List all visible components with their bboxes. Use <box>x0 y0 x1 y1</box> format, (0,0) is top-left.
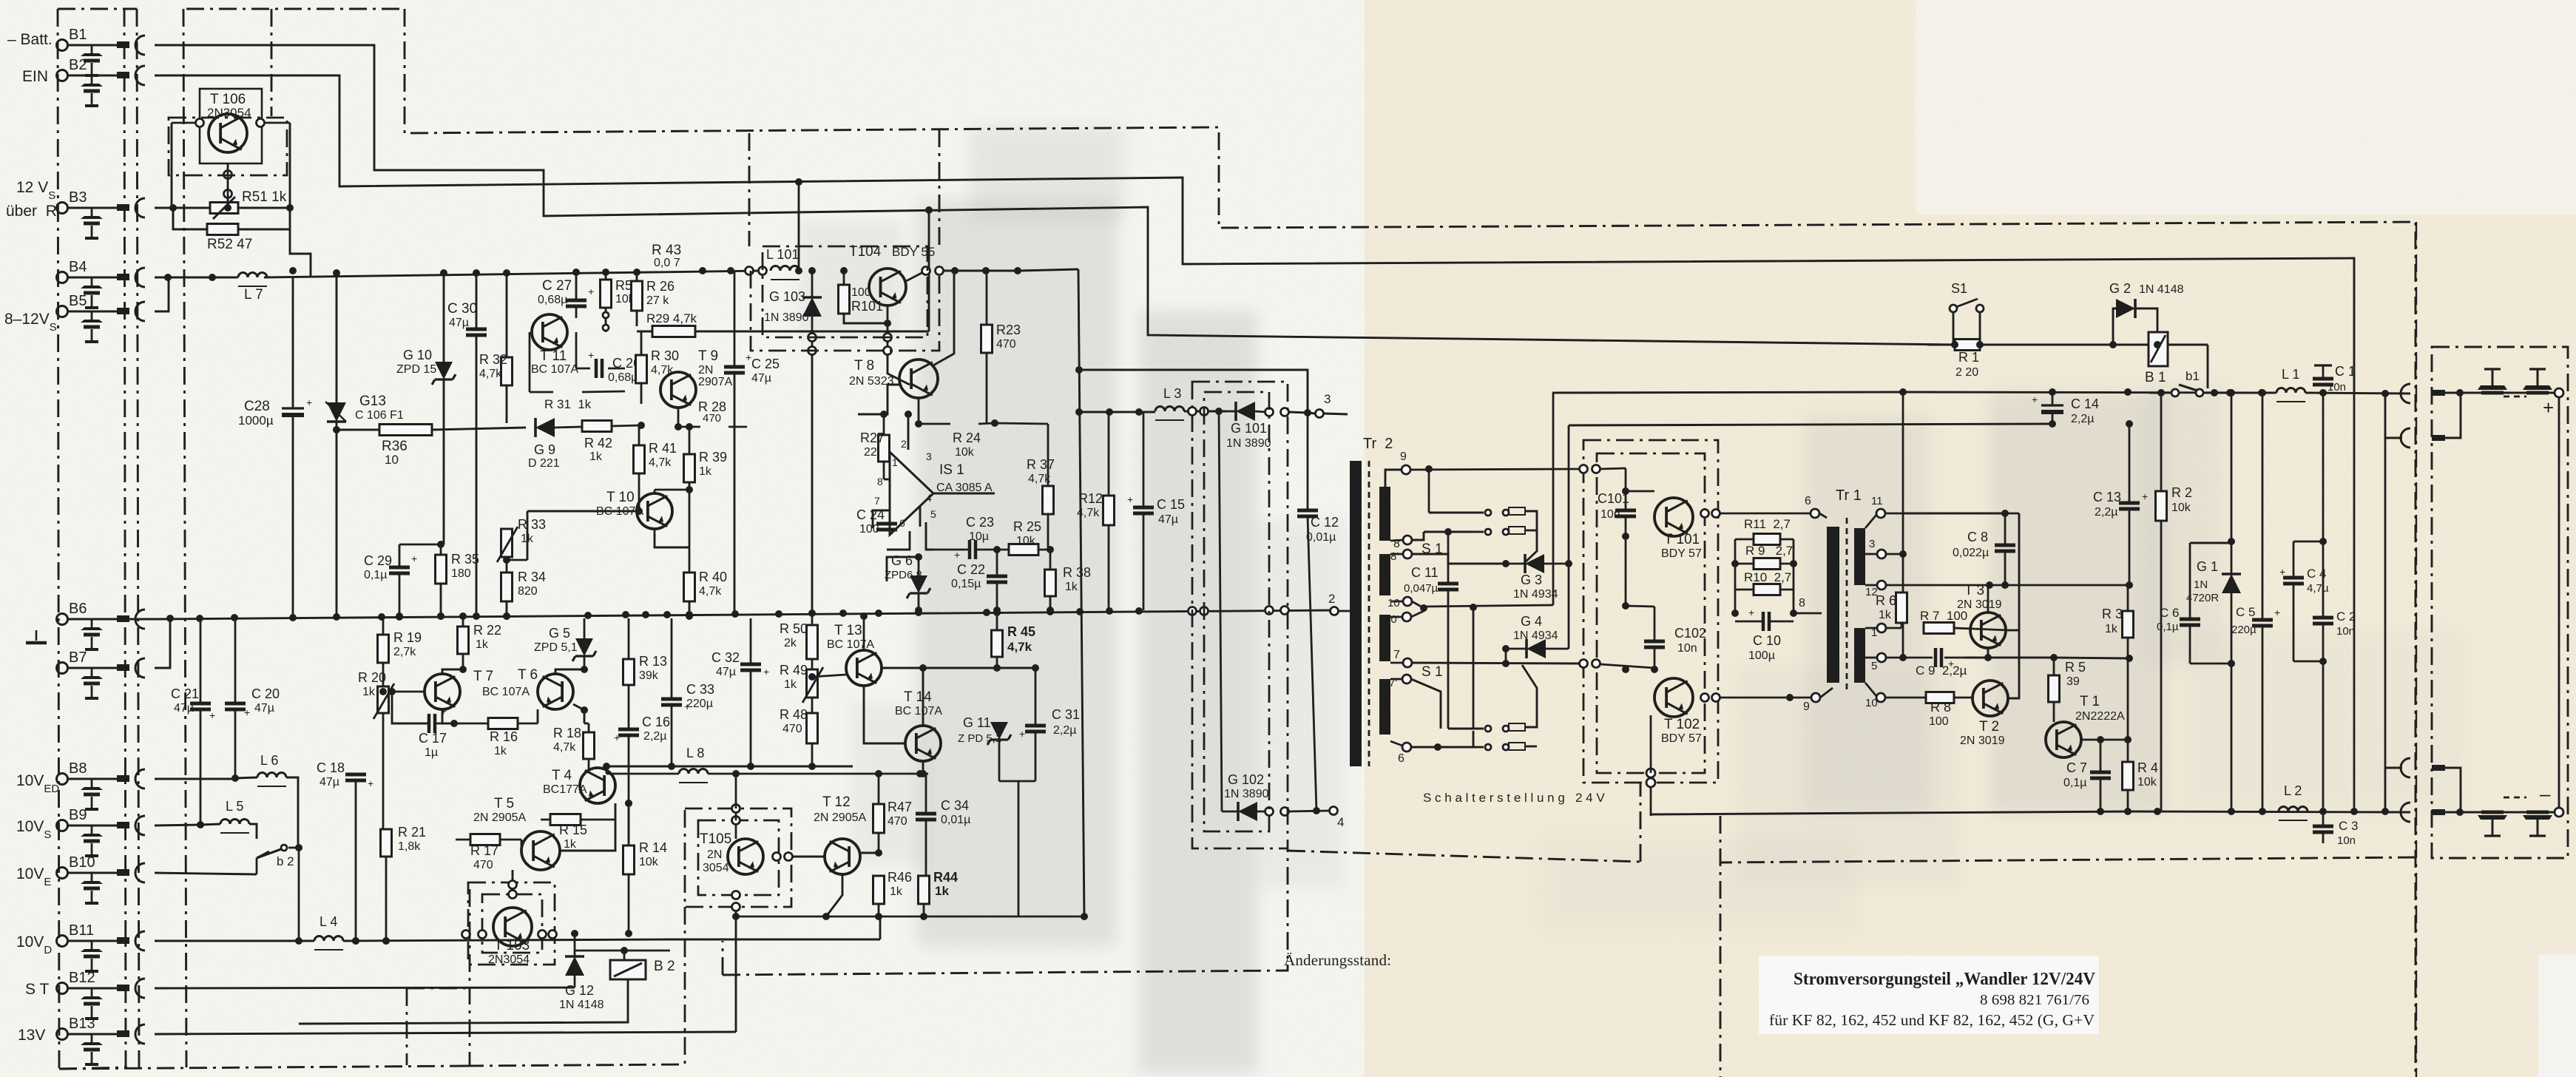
dash-dot shield staircase <box>186 8 405 10</box>
wire relay top <box>575 950 624 952</box>
Tr2 pin 8p <box>1403 550 1412 558</box>
capacitor C12 <box>1297 509 1318 513</box>
capacitor C27 <box>566 299 586 303</box>
pass-through bump at B6 <box>135 610 145 629</box>
terminal B4 <box>57 272 68 283</box>
capacitor C15 <box>1133 506 1154 510</box>
pass-through bump at B10 <box>135 863 145 882</box>
wire S1 lower link <box>1505 638 1507 653</box>
capacitor C31 <box>1025 724 1046 728</box>
rail junction dots <box>2157 389 2165 396</box>
S1 lower contacts <box>1485 726 1491 732</box>
wire T11 collector <box>575 306 578 318</box>
potentiometer R33 <box>501 529 513 557</box>
pass-through bump at B7 <box>135 658 145 678</box>
feedthrough capacitor at B8 <box>91 779 93 787</box>
resistor R10 <box>1754 584 1780 595</box>
terminal B3 <box>57 203 68 214</box>
transistor T8 <box>899 359 938 398</box>
wire R29 to Batt line <box>928 210 930 331</box>
connector arc bottom1 <box>2401 758 2410 777</box>
Tr1 right bar lower <box>1854 628 1865 683</box>
wire T7 T6 tops <box>442 669 463 674</box>
bus continue open circles <box>1189 607 1197 615</box>
wire T7 emitter <box>442 709 454 723</box>
diode G1 <box>2222 574 2241 593</box>
dash-dot box schalter <box>1640 783 1642 862</box>
wire T105 collector <box>735 774 737 808</box>
dash-dot L101 riser right <box>939 129 941 246</box>
battery chassis symbol 3 <box>2492 820 2494 836</box>
wire T3 emitter <box>1987 648 1990 658</box>
resistor R50 <box>807 625 818 659</box>
feedthrough capacitor at B13 <box>91 1034 93 1042</box>
wire T101 collector emitter <box>1693 513 1705 517</box>
wire T13 collector <box>863 616 865 650</box>
IS1 pin wires <box>907 414 910 450</box>
terminal B9 <box>57 820 68 831</box>
wire T14 collector <box>922 668 924 726</box>
capacitor C101 <box>1615 509 1636 513</box>
T103 box extension dash-dot <box>406 988 408 1065</box>
bottom rail left <box>1651 811 2129 814</box>
G101 G102 dash-dot box <box>1192 382 1288 848</box>
resistor R27 <box>879 435 890 462</box>
wire T10 base <box>521 511 637 555</box>
T104 connections <box>844 278 869 281</box>
zener G5 <box>572 638 596 661</box>
wire rail after b1 <box>2204 392 2276 394</box>
zener G10 <box>432 362 456 385</box>
transistor T2 <box>1972 681 2008 716</box>
wire to b1 <box>2157 345 2158 366</box>
resistor R34 <box>501 573 513 601</box>
terminal B11 <box>57 936 68 947</box>
wire B10 row <box>155 873 257 874</box>
resistor R6 <box>1896 592 1907 623</box>
capacitor C18 <box>345 773 366 777</box>
wire B8 row <box>155 778 235 780</box>
wire G4 to pin7 row <box>1505 649 1507 664</box>
wire G6 top <box>887 557 919 581</box>
transistor T4 <box>580 768 615 803</box>
wire B11 row <box>155 940 314 942</box>
wire bottom connector stub <box>2385 768 2402 811</box>
Tr2 pin 10 <box>1403 597 1412 606</box>
Tr2 pin 7p <box>1402 675 1411 683</box>
T103 inner dash-dot box <box>482 894 542 953</box>
capacitor C25 <box>724 365 745 369</box>
diode G2 <box>2116 299 2135 318</box>
resistor R53 <box>601 280 612 308</box>
terminal B7 <box>57 663 68 674</box>
resistor R39 <box>684 454 695 482</box>
diode G103 <box>802 297 822 317</box>
wire battery bottom <box>2460 811 2555 814</box>
relay B2 <box>610 960 646 979</box>
T106 dash-dot enclosure <box>169 118 287 175</box>
resistor R26 <box>632 281 643 311</box>
wire T8 base <box>858 385 899 414</box>
potentiometer R49 <box>807 669 818 698</box>
terminal B6 <box>57 614 68 625</box>
resistor R48 <box>807 713 818 743</box>
inductor L4 <box>314 936 343 941</box>
capacitor C4 <box>2283 576 2304 580</box>
resistor R17 <box>470 834 500 845</box>
resistor R8 <box>1926 692 1954 703</box>
T105 outer dash-dot box <box>685 808 791 907</box>
wire C33 C32 bottom rail <box>588 769 589 770</box>
inductor L6 <box>257 773 286 778</box>
bottom rail <box>2129 811 2410 812</box>
resistor R30 <box>636 355 647 383</box>
relay B1 <box>2149 332 2168 366</box>
vertical feed line <box>1078 269 1084 916</box>
T106 connections <box>172 122 200 124</box>
wire B1 staircase <box>155 45 1955 345</box>
wire staircase branch to pin3 <box>1079 370 1308 413</box>
pass-through bump at B8 <box>135 769 145 789</box>
L101 dash-dot box <box>763 246 927 337</box>
capacitor C13 <box>2119 502 2140 505</box>
T105 box extension dash-dot <box>684 907 686 1064</box>
capacitor C21 <box>190 702 211 706</box>
wire T1 base <box>2026 698 2028 740</box>
wire G11 C31 bottom <box>999 780 1035 783</box>
T105 inner dash-dot box <box>698 820 779 895</box>
diode G4 <box>1527 639 1546 658</box>
battery chassis symbol 4 <box>2537 820 2539 836</box>
transistor T5 <box>521 831 560 870</box>
inductor L7 <box>238 273 267 277</box>
capacitor C14 <box>2041 404 2063 406</box>
bottom border dash-dot <box>59 1066 466 1069</box>
wire battery right vertical <box>2558 397 2560 808</box>
wire T14 base <box>864 686 905 743</box>
feedthrough capacitor at B6 <box>91 619 93 627</box>
capacitor C10 <box>1762 612 1765 631</box>
wire T106 right <box>289 123 291 208</box>
feeder shield line <box>137 9 139 1067</box>
wire T12 emitter <box>793 856 825 858</box>
resistor R41 <box>634 445 645 473</box>
diode G3 <box>1525 554 1544 573</box>
pass-through bump at B2 <box>135 66 145 85</box>
resistor R45 <box>992 630 1003 657</box>
wire T3 collector <box>1987 585 1990 612</box>
pass-through bump at B11 <box>135 931 145 951</box>
wire 2573 vertical <box>1902 392 1904 554</box>
wire R51R52 right <box>238 208 290 229</box>
Tr2 winding bar 4 <box>1379 679 1390 735</box>
switch S1 right <box>1950 305 1957 312</box>
inductor L2 <box>2279 807 2308 811</box>
wire T102 collector <box>1693 697 1705 698</box>
wire T10 emitter to R40 <box>655 534 689 547</box>
wire R parallel bracket <box>1734 539 1737 613</box>
Tr1 pin 1 <box>1877 624 1886 632</box>
feedthrough capacitor at B7 <box>91 668 93 676</box>
capacitor C5 <box>2252 618 2273 622</box>
wire rectifier feed vertical <box>1568 425 1570 649</box>
pass-through bump at B3 <box>135 198 145 217</box>
resistor R12 <box>1103 496 1115 525</box>
Tr2 winding bar 2 <box>1379 554 1390 595</box>
resistor R29 <box>652 326 695 337</box>
transistor T106 <box>209 114 247 152</box>
wire T12 collector <box>842 831 843 839</box>
terminal B13 <box>57 1029 68 1040</box>
Tr2 pin 9 <box>1402 465 1410 474</box>
wire T6 base <box>537 692 538 709</box>
resistor R38 <box>1045 570 1056 596</box>
resistor R14 <box>623 845 635 874</box>
resistor R24 <box>950 419 952 430</box>
wire B7 join <box>155 619 170 668</box>
terminal B2 <box>57 70 68 81</box>
Tr2 winding bar 1 <box>1379 487 1390 541</box>
capacitor C17 <box>427 714 431 733</box>
transistor T3 <box>1970 612 2006 648</box>
resistor R19 <box>378 635 389 663</box>
wire T10 collector emitter <box>654 490 656 493</box>
wire R36 to G9 <box>432 428 526 430</box>
wire T102 emitter <box>1625 669 1626 709</box>
capacitor C9 <box>1934 648 1938 667</box>
Tr1 left bar <box>1827 527 1839 683</box>
battery feed tick top <box>2432 390 2445 396</box>
Tr2 pin 10p <box>1402 612 1411 621</box>
C4 bracket <box>2293 541 2323 543</box>
pass-through bump at B9 <box>135 816 145 835</box>
feedthrough capacitor at B5 <box>91 311 93 320</box>
transistor T102 <box>1654 678 1693 717</box>
wire B5 join <box>155 277 169 311</box>
wire T6 emitter <box>573 704 584 723</box>
op-amp IS1 <box>890 452 933 535</box>
wire relay bottom <box>299 979 628 1024</box>
wire T12 base loop <box>826 874 842 916</box>
wire R20 wiper <box>383 691 426 692</box>
resistor R32 <box>501 357 513 385</box>
resistor R11 <box>1754 534 1780 545</box>
diode G12 <box>565 956 584 976</box>
wire T106 left <box>171 123 173 208</box>
wire R3 top <box>2005 584 2128 587</box>
transistor T10 <box>637 493 672 529</box>
wire T1 collector <box>2054 721 2063 723</box>
transistor T11 <box>532 314 567 350</box>
transistor T103 <box>493 908 532 946</box>
feedthrough capacitor at B4 <box>91 277 93 286</box>
wire C10 to pin8 <box>1794 612 1805 615</box>
terminal B5 <box>57 306 68 317</box>
resistor R40 <box>684 573 695 601</box>
pass-through bump at B13 <box>135 1024 145 1044</box>
wire T101 base <box>1626 490 1654 493</box>
long dash-dot bottom <box>723 848 1288 975</box>
resistor R18 <box>584 732 595 759</box>
capacitor C28 <box>282 407 304 409</box>
resistor R46 <box>873 876 885 904</box>
wire R2 top <box>2160 392 2162 394</box>
wire tap switch drop <box>1473 607 1475 729</box>
wire B12 row <box>155 987 575 988</box>
connector arc bottom2 <box>2401 803 2410 822</box>
wire pin7 row right <box>1600 664 1654 668</box>
resistor R13 <box>623 659 635 685</box>
inductor L3 <box>1155 407 1184 411</box>
wire rail top main <box>1903 392 2276 393</box>
battery dashes bottom <box>2504 797 2526 799</box>
Tr1 pin 5 <box>1877 653 1886 662</box>
battery dashes top <box>2504 396 2526 398</box>
feedthrough capacitor at B1 <box>91 45 93 53</box>
wire T104 emitter down <box>888 355 910 385</box>
transistor T9 <box>660 372 696 408</box>
S1 upper contacts <box>1485 510 1491 516</box>
wire staircase A tail <box>1927 344 1955 345</box>
wire section bottom crossings <box>1646 769 1655 777</box>
Tr1 right bar upper <box>1854 528 1865 585</box>
dash-dot vertical 2326 <box>1720 816 1722 1077</box>
thyristor G13 <box>327 402 346 422</box>
pass-through bump at B4 <box>135 268 145 287</box>
vertical 3226 upper <box>2384 393 2386 394</box>
wire B13 row <box>155 1032 736 1034</box>
rail junction G102 riser <box>1215 408 1223 415</box>
wire R bracket to pin6 line <box>1734 612 1736 614</box>
wire battery top <box>2460 392 2555 394</box>
inductor L101 <box>771 266 799 271</box>
Tr1 pin 11 <box>1876 509 1885 518</box>
connector arc top <box>2401 384 2410 403</box>
capacitor C6 <box>2180 618 2200 621</box>
resistor R35 <box>436 555 447 584</box>
transistor T104 <box>869 269 906 305</box>
resistor R52 <box>207 224 238 235</box>
wire pin11 row end <box>2005 513 2019 515</box>
Tr1 pin 3 <box>1877 550 1886 558</box>
G101 G102 inner dash-dot box <box>1204 392 1269 831</box>
wire T8 collector <box>932 271 954 366</box>
wire L8 left <box>606 773 679 775</box>
wire rail left end <box>1552 393 1555 605</box>
transistor T1 <box>2046 722 2081 757</box>
transistor T12 <box>825 839 860 874</box>
wire b2 down <box>298 848 300 941</box>
bus 0V <box>70 618 155 621</box>
wire EIN feed vertical <box>798 181 800 271</box>
switch b2 <box>257 851 269 858</box>
wire T2 down <box>2019 698 2027 699</box>
wire T102 base <box>1654 669 1655 698</box>
wire B3 row <box>155 207 210 209</box>
dash-dot bottom to schalter box <box>1288 851 1640 862</box>
inductor L5 <box>220 820 249 824</box>
capacitor C26 <box>595 359 598 378</box>
capacitor C1 <box>2313 377 2333 381</box>
pass-through bump at B1 <box>135 36 145 55</box>
wire T105 emitter <box>735 874 737 895</box>
L101 outer dash-dot box <box>751 271 939 351</box>
capacitor C29 <box>389 566 410 570</box>
capacitor C102 <box>1644 640 1665 644</box>
capacitor C32 <box>740 663 761 666</box>
battery chassis symbol 1 <box>2492 369 2494 385</box>
Tr2 core bar <box>1350 461 1362 766</box>
section dash-dot box inner <box>1597 453 1705 773</box>
wire T13 emitter row <box>882 667 1035 669</box>
section dash-dot box outer <box>1583 440 1718 783</box>
wire G1 top bottom <box>2231 541 2232 542</box>
capacitor C2 <box>2313 616 2333 620</box>
resistor R47 <box>873 804 885 833</box>
Tr1 pin 12 <box>1877 581 1886 590</box>
resistor R7 <box>1924 623 1954 634</box>
wire rail connector stub <box>2385 394 2402 438</box>
capacitor C3 <box>2313 825 2333 828</box>
wire S1 vertical 1932 <box>1428 469 1430 513</box>
S1 upper links <box>1472 531 1484 533</box>
capacitor C20 <box>225 702 246 706</box>
battery terminal plus <box>2555 388 2563 397</box>
Tr1 pin 10 <box>1876 693 1885 702</box>
terminal B8 <box>57 774 68 785</box>
wire B4 bus <box>155 277 238 279</box>
capacitor C33 <box>661 698 682 701</box>
ground symbol <box>26 641 47 645</box>
Tr2 dashed core line <box>1368 461 1370 766</box>
resistor R2 <box>2156 491 2167 521</box>
battery feed tick 4 <box>2432 809 2445 815</box>
G1 box <box>2190 542 2231 544</box>
wire T103 row <box>343 935 466 941</box>
battery feed tick 2 <box>2432 435 2445 441</box>
inductor L1 <box>2276 388 2305 393</box>
wire B9 row <box>155 825 200 826</box>
resistor R9 <box>1754 558 1780 570</box>
transistor T105 <box>728 839 763 874</box>
wire bus to L101 <box>678 270 763 271</box>
wire T4 base <box>588 769 589 786</box>
wire T4 collector <box>597 766 598 768</box>
capacitor C16 <box>618 728 639 732</box>
battery box dash-dot <box>2432 347 2568 858</box>
terminal strip frame <box>58 8 124 10</box>
T105 crossings <box>732 805 740 813</box>
resistor R31 <box>552 387 555 398</box>
transistor T14 <box>905 726 941 761</box>
inductor L8 <box>679 769 708 774</box>
Tr2 winding bar 3 <box>1379 615 1390 661</box>
capacitor C22 <box>987 575 1007 578</box>
wire bus staircase to L3 rail <box>1019 269 1078 271</box>
potentiometer R20 <box>378 686 389 713</box>
wire T5 base <box>540 820 541 831</box>
T103 outer dash-dot box <box>468 882 555 965</box>
dash-dot L101 riser left <box>748 133 751 246</box>
battery chassis symbol 2 <box>2537 369 2539 385</box>
potentiometer R51 <box>210 203 238 214</box>
wire node row 1239 <box>737 916 1084 918</box>
diode G101 <box>1236 402 1255 421</box>
resistor R25 <box>1009 544 1038 556</box>
wire L2 right <box>2308 811 2410 812</box>
dash-dot T106 riser <box>271 9 273 116</box>
terminal B1 <box>57 40 68 51</box>
